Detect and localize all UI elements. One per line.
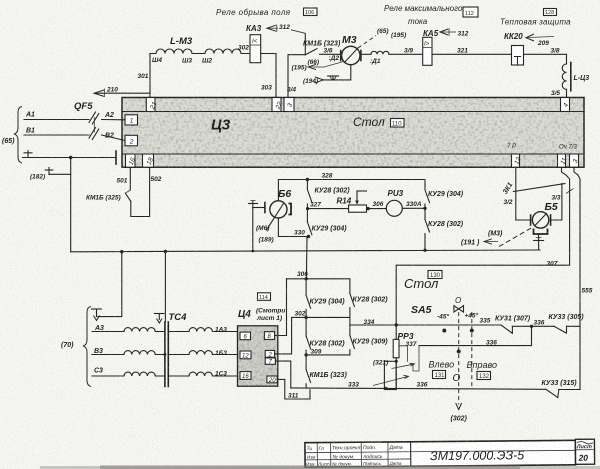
wire B5 left xyxy=(516,219,531,221)
ref box 110 xyxy=(391,119,405,128)
ref box 128 xyxy=(544,9,557,17)
contact KV28 (302) right xyxy=(423,208,463,251)
wire B6 ground to bus xyxy=(252,208,254,252)
brush bracket B5 xyxy=(534,229,548,235)
unit U4 box xyxy=(238,326,278,386)
wire 307 from terminal 11 to PP3 xyxy=(396,167,569,339)
page bottom smudge xyxy=(40,466,600,469)
circuit breaker QF5 xyxy=(74,101,99,140)
junction 336 xyxy=(530,325,533,328)
junction 330 xyxy=(307,235,310,238)
wire KA3 to terminal 22 xyxy=(261,54,276,98)
wire KA5 to KK20 xyxy=(432,53,512,55)
contact KV33 (315) xyxy=(542,380,581,398)
header text: Реле максимального тока xyxy=(384,4,463,26)
ref box 106 xyxy=(304,8,318,16)
tachogenerator B6 xyxy=(265,188,292,230)
off-page arrow 210 xyxy=(94,87,150,98)
rheostat R14 xyxy=(337,191,367,212)
junction bus x122 xyxy=(120,250,123,253)
terminal 12 (box bottom right) xyxy=(512,154,523,167)
off-page arrow 312 (KA3) xyxy=(267,25,278,33)
junction on PE wire xyxy=(69,156,72,159)
terminal 4 (box top right) xyxy=(561,98,571,112)
wire pin20 to 311 xyxy=(277,379,310,399)
dashed position line 0 xyxy=(458,312,460,404)
junction 306 xyxy=(305,277,308,280)
bracket (65) xyxy=(2,107,22,164)
tachogenerator B5 xyxy=(531,201,558,228)
relay KA3 coil (I&lt;) xyxy=(250,35,261,63)
motor M3 xyxy=(341,34,361,65)
thermal relay KK20 element xyxy=(512,46,524,66)
junction bus x165 xyxy=(164,250,167,253)
relay KA5 coil (I&gt;) xyxy=(423,37,432,65)
terminal 22 (box top) xyxy=(272,98,284,112)
junction PP3 bottom xyxy=(384,387,387,390)
wire PP3 center vertical xyxy=(395,358,397,390)
closure dot -45 xyxy=(442,329,446,333)
pencil notes on box xyxy=(507,144,577,151)
wire L-Ц3 to terminal 4 xyxy=(566,89,568,97)
chassis ground M3 xyxy=(328,76,339,80)
primary winding A3 xyxy=(92,325,165,332)
rheostat PP3 upper element xyxy=(393,339,399,357)
junction 328/KV28 xyxy=(306,178,309,181)
contact 3K1 diagonal xyxy=(514,184,574,194)
wire 3/4 xyxy=(288,55,305,98)
ref box 112 xyxy=(463,7,478,17)
wire 301 vertical xyxy=(149,54,151,98)
junction primary star xyxy=(163,353,166,356)
arrow to (302) xyxy=(451,403,468,423)
pin 7 xyxy=(265,358,275,366)
chassis ground arrow (left) xyxy=(92,309,102,321)
dashed position line +45 xyxy=(471,312,473,387)
primary winding B3 xyxy=(92,348,165,355)
wire to motor M3 xyxy=(320,53,342,55)
terminal 16 (box bottom left) xyxy=(126,154,138,167)
contact KM1B (323) xyxy=(303,34,341,55)
secondary winding 1A3 xyxy=(168,327,237,336)
wire left riser to ground bus xyxy=(70,158,72,252)
contact KV29 (309) col2 xyxy=(350,325,388,355)
contact KV28 (302) col1 xyxy=(306,317,345,355)
closure dot +45 xyxy=(470,329,474,333)
contact KV29 (304) left xyxy=(307,209,347,235)
junction 334/PP3 riser xyxy=(395,323,398,326)
pin 6 xyxy=(240,332,251,340)
ammeter PU3 xyxy=(386,189,403,216)
wire pin7 down to bus 333 xyxy=(275,361,290,388)
pin box 2 xyxy=(125,135,138,146)
contact KV31 (307) xyxy=(495,316,532,334)
wire bus to chassis (left of TC4) xyxy=(98,252,122,317)
TC4 core xyxy=(165,322,168,387)
ref (66) with arrow xyxy=(292,59,344,72)
wire KK20 to L-Ц3 xyxy=(524,54,567,64)
terminal 3 (box top) xyxy=(284,98,294,112)
ref box 114 xyxy=(258,293,271,301)
pin 2 xyxy=(265,350,274,358)
contact KV28 (302) col2 xyxy=(350,279,388,318)
phase wire B2 to pin 2 xyxy=(102,133,126,141)
ground bus xyxy=(71,250,540,252)
junction R14/PU3 xyxy=(366,207,369,210)
rung 336 xyxy=(419,326,532,345)
chassis ground B5 xyxy=(534,234,544,250)
chassis ground arrow (TC4) xyxy=(155,314,165,324)
node label 327 xyxy=(307,202,321,209)
ref box 130 xyxy=(428,271,442,280)
contact KV33 (305) xyxy=(532,314,585,333)
pin 16 xyxy=(240,372,251,380)
secondary winding 1B3 xyxy=(168,350,237,357)
PE end bar at box xyxy=(115,151,117,164)
mech coupling dashed to (65)(195) xyxy=(358,28,406,48)
contact KM1B (323) lower xyxy=(306,355,347,388)
chassis ground B6 xyxy=(249,201,265,208)
terminal 21 (box top) xyxy=(146,98,158,112)
contact KV29 (304) right xyxy=(425,180,464,209)
wire bus to TC4 core xyxy=(164,252,166,323)
junction 309 xyxy=(304,353,307,356)
main assembly box U3 fill xyxy=(122,98,584,168)
title block xyxy=(305,439,595,467)
wire 306 horizontal xyxy=(287,278,350,280)
wire R14 to PU3 xyxy=(367,208,387,210)
closure dot 0 lower xyxy=(457,350,461,354)
primary winding C3 xyxy=(92,368,165,377)
wire 330 xyxy=(278,218,308,237)
rheostat PP3 lower element xyxy=(384,361,396,389)
phase wire A1 xyxy=(24,112,89,120)
wire M3 to ground ref 194 xyxy=(303,65,351,85)
wire pin2 riser to 302 xyxy=(275,317,307,354)
bracket (70) xyxy=(61,307,91,387)
pin box 1 xyxy=(125,115,138,125)
main assembly box U3 outline xyxy=(122,98,584,168)
junction 302 xyxy=(304,316,307,319)
mech coupling dashed (M3) to B5 xyxy=(461,228,532,247)
ref (182) with chassis mark xyxy=(30,168,71,181)
phase wire A2 to pin 1 xyxy=(102,112,126,120)
wire terminal 12 down to B5 xyxy=(515,167,517,220)
wire 328 xyxy=(278,173,425,202)
pin 8 xyxy=(264,332,274,340)
junction PP3 center xyxy=(395,360,398,363)
contact KV29 (304) col1 xyxy=(306,279,345,318)
contact KV28 (302) left xyxy=(307,180,350,203)
label U4 (Смотри лист 1) xyxy=(238,308,285,323)
mech link (321) wiper lines xyxy=(373,360,415,386)
wire B5 right riser xyxy=(551,184,562,221)
header text: Тепловая защита xyxy=(500,18,571,27)
ref (М6)(189) xyxy=(256,225,274,244)
off-page arrow 312 (to KM1B) xyxy=(279,24,305,34)
terminal 18 (box bottom left) xyxy=(143,154,156,167)
off-page arrow 312 (KA5) xyxy=(440,28,469,38)
bus 333 xyxy=(291,388,546,389)
wire terminal 3 down (right vertical) xyxy=(574,167,580,389)
label Влево xyxy=(429,360,455,380)
label Вправо xyxy=(467,360,497,380)
pin 12 xyxy=(240,351,251,359)
wire PU3 to right contacts xyxy=(402,207,425,209)
inductor Д1 xyxy=(361,51,423,65)
winding tap labels Ш4 Ш3 Ш2 Ш1 xyxy=(152,57,259,65)
junction right column xyxy=(423,207,426,210)
wire 306 riser from 330 xyxy=(305,237,308,279)
wire 309 xyxy=(306,354,350,356)
pin 20 xyxy=(267,376,277,384)
terminal 3 (box bottom right) xyxy=(570,154,580,167)
PE wire with chassis mark xyxy=(23,151,117,158)
inductor L-Ц3 xyxy=(562,63,589,91)
wire 501 with contact KM1B(325) xyxy=(86,167,162,216)
inductor L-M3 winding xyxy=(150,49,250,54)
wire 327 to R14 xyxy=(307,208,348,210)
PP3 tap wires xyxy=(399,346,419,371)
off-page arrow 209 xyxy=(526,34,554,47)
phase wire B1 xyxy=(24,128,89,136)
wire pin8 riser to 306 xyxy=(275,279,287,336)
SA5 bowtie symbol xyxy=(454,306,464,312)
terminal 11 (box bottom right) xyxy=(558,154,569,167)
secondary winding 1C3 xyxy=(168,371,237,378)
wire 302/334 xyxy=(306,317,501,325)
